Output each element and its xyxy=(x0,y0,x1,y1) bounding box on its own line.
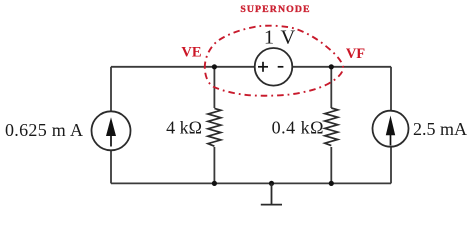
wire right vertical xyxy=(390,67,392,184)
node dot VE xyxy=(212,64,217,69)
node dot bottom-center xyxy=(269,181,274,186)
svg-text:0.4 kΩ: 0.4 kΩ xyxy=(272,118,324,138)
current source I1 0.625 mA xyxy=(92,111,131,150)
svg-text:0.625 m A: 0.625 m A xyxy=(5,120,83,140)
wire branch VE resistor xyxy=(213,67,215,184)
svg-text:1 V: 1 V xyxy=(264,27,296,49)
wire top horizontal xyxy=(111,66,391,68)
svg-text:2.5 mA: 2.5 mA xyxy=(413,119,467,139)
wire left vertical xyxy=(110,67,112,184)
current source I2 2.5 mA xyxy=(373,111,409,147)
wire branch VF resistor xyxy=(330,67,332,184)
resistor R2 0.4 kOhm xyxy=(323,108,340,147)
node dot bottom-right xyxy=(329,181,334,186)
node dot VF xyxy=(329,64,334,69)
svg-text:4 kΩ: 4 kΩ xyxy=(166,118,202,138)
ground xyxy=(261,183,282,204)
supernode boundary (red dash-dot loop) xyxy=(205,26,343,96)
svg-text:VF: VF xyxy=(346,46,365,62)
resistor R1 4 kOhm xyxy=(206,108,223,147)
svg-text:VE: VE xyxy=(181,45,201,61)
voltage source V1 1 V xyxy=(255,48,293,86)
node dot bottom-left xyxy=(212,181,217,186)
svg-text:SUPERNODE: SUPERNODE xyxy=(240,4,310,15)
wire bottom horizontal xyxy=(111,182,391,184)
